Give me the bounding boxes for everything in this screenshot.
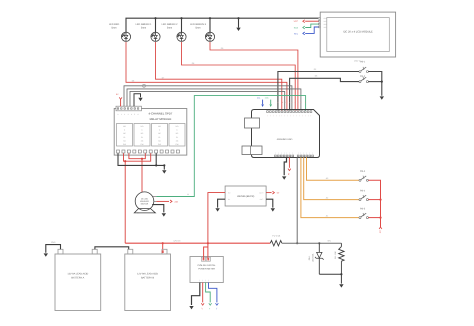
push button PB-5 — [359, 207, 368, 218]
svg-text:SDA: SDA — [265, 96, 269, 99]
svg-text:|: | — [291, 114, 292, 117]
svg-text:|: | — [296, 114, 297, 117]
svg-text:CL: CL — [123, 136, 125, 139]
svg-text:12V DC: 12V DC — [173, 240, 181, 243]
net flag 24V at motor — [156, 200, 178, 203]
push button PB-4 — [359, 189, 368, 200]
wire: LED D4 anode to Arduino D9 — [210, 42, 298, 110]
svg-text:ZR-1: ZR-1 — [308, 255, 311, 260]
wire: relay IN1 to Arduino — [124, 84, 292, 110]
svg-text:|: | — [267, 114, 268, 117]
ground flag for relay — [134, 94, 143, 107]
svg-text:SCL: SCL — [257, 96, 261, 99]
wire: Arduino A3 to PB-3 (orange) — [307, 157, 360, 180]
svg-text:BATTERY A: BATTERY A — [71, 277, 84, 280]
svg-text:C: C — [176, 129, 178, 132]
wire: Arduino A1 to PB-5 (orange) — [301, 157, 359, 217]
net flag at power meter blue lead — [209, 283, 219, 310]
svg-text:|: | — [310, 151, 311, 154]
svg-text:5V: 5V — [116, 93, 119, 96]
Arduino UNO U1 — [242, 110, 320, 158]
svg-text:|: | — [288, 114, 289, 117]
svg-text:PB-3: PB-3 — [360, 170, 366, 173]
pin net labels at Arduino top — [278, 101, 307, 104]
wire: relay IN3 to Arduino — [130, 91, 285, 110]
svg-text:PB-4: PB-4 — [360, 189, 366, 192]
svg-text:PW: PW — [176, 143, 179, 146]
svg-text:5V: 5V — [287, 173, 290, 176]
svg-text:SCL: SCL — [324, 26, 327, 29]
svg-text:POWER METER: POWER METER — [198, 268, 215, 271]
wire: Arduino A2 to PB-4 (orange) — [304, 157, 359, 199]
svg-text:I2C 20 x 4 LCD MODULE: I2C 20 x 4 LCD MODULE — [343, 30, 373, 33]
net flag SDA to LCD — [294, 24, 319, 29]
wire: LM2596 OUT- to ground — [266, 199, 275, 211]
svg-text:|: | — [299, 114, 300, 117]
net flag 5V at LM2596 OUT+ — [266, 191, 280, 194]
svg-text:|: | — [311, 114, 312, 117]
svg-text:|: | — [304, 151, 305, 154]
svg-text:A1: A1 — [326, 214, 329, 217]
svg-text:NC: NC — [141, 132, 144, 135]
push button PB-2 — [359, 75, 368, 82]
motor M1 (DC 24V washer motor) — [134, 192, 156, 213]
svg-text:SG: SG — [123, 139, 126, 142]
svg-text:SG: SG — [158, 139, 161, 142]
svg-text:PB-1: PB-1 — [360, 61, 366, 64]
svg-text:OUT-: OUT- — [260, 198, 264, 201]
wire: relay IN2 to Arduino — [127, 89, 301, 111]
svg-text:|: | — [281, 151, 282, 154]
svg-text:NO: NO — [123, 125, 126, 128]
wire: 12V rail to LM2596 IN+ — [208, 193, 225, 244]
battery BT-A (12V 9A lead acid) — [55, 249, 101, 310]
svg-text:|: | — [284, 151, 285, 154]
net flag 5V to relay VCC — [116, 93, 122, 106]
svg-text:12V 9A LEAD ACID: 12V 9A LEAD ACID — [137, 273, 158, 276]
LED D4 (LED GREEN 3 5mm) — [190, 23, 215, 41]
svg-text:PW: PW — [141, 143, 144, 146]
zener diode ZR-1 (1N4742A) — [308, 243, 324, 274]
wire: PB-1 to ground bus — [368, 72, 381, 96]
wire: LM2596 IN- to ground — [215, 199, 225, 211]
svg-text:4-CHANNEL SPDT: 4-CHANNEL SPDT — [149, 112, 173, 116]
svg-text:5V: 5V — [277, 192, 280, 195]
svg-text:|: | — [279, 114, 280, 117]
svg-text:24V: 24V — [175, 200, 179, 203]
wire: fused 12V to VIN and zener clamp — [282, 240, 342, 245]
wire: relay COM jumper A (red) — [124, 153, 151, 162]
svg-text:0: 0 — [118, 113, 119, 116]
resistor R-1 (10K) — [334, 243, 344, 274]
svg-text:VCC: VCC — [294, 20, 299, 23]
svg-text:DC 24V: DC 24V — [141, 197, 149, 200]
net flag VCC to LCD — [294, 20, 319, 23]
svg-text:12V: 12V — [378, 230, 381, 234]
svg-text:|: | — [290, 151, 291, 154]
svg-text:|: | — [282, 114, 283, 117]
svg-text:|: | — [293, 151, 294, 154]
svg-text:CL: CL — [141, 136, 143, 139]
svg-text:5mm: 5mm — [111, 27, 116, 30]
wire: Arduino D2 to PB-1 — [278, 68, 359, 111]
LED D3 (LED GREEN 2 5mm) — [162, 23, 187, 41]
net flag 12V on PB bus — [378, 227, 382, 234]
wire: 12V rail to power meter inputs — [204, 243, 208, 259]
svg-text:12V 9A LEAD ACID: 12V 9A LEAD ACID — [67, 273, 88, 276]
wire: 12V rail from battery B positive — [125, 240, 270, 250]
svg-text:d: d — [305, 101, 306, 104]
svg-text:RELAY MODULE: RELAY MODULE — [150, 117, 172, 121]
wire: motor terminal to Arduino A5 (green) — [156, 96, 305, 197]
svg-text:|: | — [270, 114, 271, 117]
net flag 5V at Arduino — [287, 157, 291, 176]
svg-text:|: | — [200, 279, 201, 282]
svg-text:V+: V+ — [215, 308, 218, 310]
LED D2 (LED GREEN 1 5mm) — [136, 23, 161, 41]
wire: battery A positive to battery B negative — [95, 247, 129, 250]
svg-text:A3: A3 — [326, 177, 329, 180]
wire: relay NC/GND run (black) — [118, 153, 165, 166]
svg-text:d: d — [287, 101, 288, 104]
svg-text:5mm: 5mm — [141, 27, 146, 30]
svg-text:PB-5: PB-5 — [360, 207, 366, 210]
svg-text:NC: NC — [176, 132, 179, 135]
svg-text:NO: NO — [158, 125, 161, 128]
net flag at power meter green lead — [206, 283, 212, 311]
svg-text:NO: NO — [141, 125, 144, 128]
svg-text:C: C — [124, 129, 126, 132]
wire: LED D2 anode to Arduino D7 — [156, 42, 282, 110]
svg-text:d: d — [297, 101, 298, 104]
svg-text:5mm: 5mm — [167, 27, 172, 30]
wire: LED D1 anode to Arduino D6 — [126, 42, 287, 110]
svg-text:NO: NO — [176, 125, 179, 128]
svg-text:d: d — [278, 101, 279, 104]
svg-text:|: | — [298, 151, 299, 154]
svg-text:|: | — [293, 114, 294, 117]
svg-text:GND: GND — [51, 241, 56, 244]
wire: relay NO to motor (red) — [141, 159, 143, 193]
net flag SCL to LCD — [294, 27, 318, 35]
svg-text:|: | — [308, 114, 309, 117]
svg-text:5mm: 5mm — [195, 27, 200, 30]
power meter PM-1 (digital power meter) — [190, 257, 223, 283]
wire: LED cathode bus to LCD GND — [126, 17, 318, 32]
svg-text:FU-1 5A: FU-1 5A — [272, 235, 280, 238]
svg-text:|: | — [302, 114, 303, 117]
relay module K1 (4-channel SPDT) — [114, 106, 187, 155]
svg-text:SDA: SDA — [294, 26, 299, 29]
battery BT-B (12V 9A lead acid) — [125, 249, 171, 310]
svg-text:2: 2 — [124, 113, 125, 116]
svg-text:VIN: VIN — [327, 240, 331, 243]
wire: battery A negative to ground — [44, 241, 61, 257]
svg-text:|: | — [208, 279, 209, 282]
svg-text:SG: SG — [176, 139, 179, 142]
svg-text:PZM-051 DIGITAL: PZM-051 DIGITAL — [198, 264, 217, 267]
wire: zener/resistor bottom node to ground — [319, 273, 343, 288]
wire: Arduino VIN to 12V rail — [296, 157, 298, 243]
wire: relay COM jumper B (red) — [129, 153, 145, 160]
svg-text:|: | — [202, 279, 203, 282]
svg-text:CL: CL — [176, 136, 178, 139]
svg-text:d: d — [289, 101, 290, 104]
svg-text:A2: A2 — [326, 196, 329, 199]
ground flag on LED bus — [236, 17, 240, 31]
svg-text:|: | — [278, 151, 279, 154]
svg-text:A-: A- — [208, 308, 211, 310]
wire: LED D3 anode to Arduino D8 — [182, 42, 296, 110]
svg-text:d: d — [291, 101, 292, 104]
wire: PB red bus — [368, 180, 381, 227]
svg-text:SCL: SCL — [294, 32, 299, 35]
svg-text:3: 3 — [128, 113, 129, 116]
svg-text:PW: PW — [158, 143, 161, 146]
svg-text:1N4742A: 1N4742A — [312, 253, 315, 262]
svg-text:|: | — [275, 151, 276, 154]
svg-text:d: d — [295, 101, 296, 104]
svg-text:BATTERY B: BATTERY B — [141, 277, 154, 280]
net flag SDA at Arduino — [265, 96, 272, 107]
svg-text:|: | — [287, 151, 288, 154]
wire: power meter GND out — [189, 283, 200, 310]
svg-text:M: M — [187, 193, 189, 196]
svg-text:MOTOR: MOTOR — [141, 203, 149, 206]
svg-text:CL: CL — [158, 136, 160, 139]
svg-text:|: | — [307, 151, 308, 154]
svg-text:LM2596 (BUCK): LM2596 (BUCK) — [237, 195, 255, 198]
wire: Arduino D3 to PB-2 — [290, 75, 359, 111]
svg-text:IN+: IN+ — [228, 191, 231, 194]
svg-text:OUT+: OUT+ — [259, 191, 263, 194]
svg-text:|: | — [205, 279, 206, 282]
svg-text:NC: NC — [158, 132, 161, 135]
svg-text:PW: PW — [123, 143, 126, 146]
ground for PB-1 PB-2 — [380, 96, 384, 99]
net flag SCL at Arduino — [257, 96, 264, 107]
LCD module U2 (I2C 20x4 LCD) — [319, 12, 396, 62]
svg-text:D3: D3 — [315, 75, 318, 78]
net flag at power meter red lead — [201, 283, 204, 310]
svg-text:5: 5 — [134, 113, 135, 116]
buck converter U3 (LM2596) — [225, 186, 266, 206]
push button PB-1 — [359, 61, 368, 73]
svg-text:|: | — [312, 151, 313, 154]
svg-text:C: C — [141, 129, 143, 132]
svg-text:|: | — [276, 114, 277, 117]
svg-text:A+: A+ — [201, 308, 204, 310]
LED D1 (LED RED 5mm) — [109, 23, 131, 41]
wire: PB-2 to ground bus — [368, 81, 383, 83]
svg-text:d: d — [282, 101, 283, 104]
ground flag on relay output — [162, 165, 166, 173]
svg-text:WASHER: WASHER — [140, 200, 149, 203]
svg-text:|: | — [273, 114, 274, 117]
svg-text:IN-: IN- — [228, 198, 231, 201]
svg-text:d: d — [300, 101, 301, 104]
svg-text:1: 1 — [121, 113, 122, 116]
svg-text:d: d — [285, 101, 286, 104]
svg-text:R-1 10K: R-1 10K — [334, 251, 337, 259]
svg-text:SG: SG — [141, 139, 144, 142]
fuse FU-1 — [270, 235, 282, 246]
wire: relay to battery 12V (red) — [125, 161, 140, 241]
push button PB-3 — [359, 170, 368, 181]
svg-text:NC: NC — [123, 132, 126, 135]
wire: Arduino GND to ground — [282, 157, 287, 180]
svg-text:4: 4 — [131, 113, 132, 116]
wire: motor to ground — [152, 205, 166, 217]
svg-text:ARDUINO UNO: ARDUINO UNO — [277, 138, 293, 141]
svg-text:6: 6 — [138, 113, 139, 116]
svg-text:PB-2: PB-2 — [360, 75, 366, 78]
svg-text:|: | — [305, 114, 306, 117]
svg-text:D2: D2 — [314, 68, 317, 71]
svg-text:|: | — [301, 151, 302, 154]
svg-text:C: C — [159, 129, 161, 132]
svg-text:|: | — [285, 114, 286, 117]
